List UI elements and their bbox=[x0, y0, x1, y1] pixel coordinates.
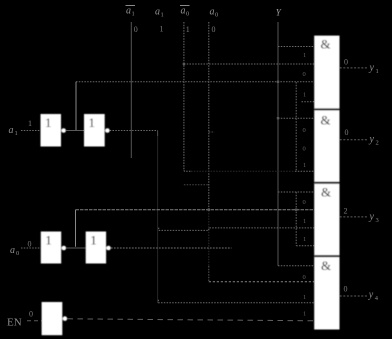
svg-text:0: 0 bbox=[215, 12, 218, 19]
inverter U2 box bbox=[84, 114, 105, 147]
svg-text:0: 0 bbox=[303, 127, 306, 134]
wire inverter1 to inverter2 bbox=[66, 130, 84, 132]
wire branch vertical lower bbox=[295, 192, 297, 246]
svg-text:EN: EN bbox=[7, 317, 22, 329]
AND gate column box bbox=[314, 36, 339, 330]
wire a1 ghost vertical bbox=[157, 131, 159, 303]
AND divider 3 bbox=[314, 255, 339, 257]
wire AND3 input 1 from V5 bbox=[278, 191, 314, 193]
svg-text:3: 3 bbox=[376, 217, 379, 224]
svg-text:1: 1 bbox=[89, 115, 96, 130]
wire AND3 input 4 bbox=[296, 245, 314, 247]
wire EN input bbox=[27, 320, 42, 322]
junction V4 a0 line bbox=[208, 209, 210, 211]
label y1 bbox=[369, 63, 379, 76]
wire AND3 input 2 a0 line bbox=[76, 209, 315, 211]
svg-text:1: 1 bbox=[28, 119, 32, 128]
wire V3 vertical a0bar bus bbox=[183, 22, 185, 170]
label a1 input bbox=[9, 125, 18, 137]
wire tap vertical pair2 bbox=[75, 210, 77, 247]
svg-text:0: 0 bbox=[212, 25, 216, 34]
wire AND1 input 4 branch bbox=[302, 101, 315, 103]
junction V5 and2in1 bbox=[277, 117, 279, 119]
junction V5 and1in3 bbox=[277, 81, 279, 83]
svg-text:1: 1 bbox=[303, 236, 306, 243]
svg-text:1: 1 bbox=[303, 92, 306, 99]
svg-text:0: 0 bbox=[16, 250, 19, 257]
inverter U4 box bbox=[86, 232, 106, 264]
svg-text:0: 0 bbox=[303, 199, 306, 206]
wire AND4 input 3 from a1 net bbox=[158, 300, 314, 303]
inverter U4 bubble bbox=[106, 246, 111, 251]
wire AND2 input 4 from V3 corner bbox=[184, 169, 191, 172]
svg-text:a: a bbox=[181, 6, 186, 17]
svg-text:y: y bbox=[369, 134, 375, 145]
svg-text:&: & bbox=[321, 113, 331, 128]
svg-text:y: y bbox=[369, 63, 375, 74]
label y4 bbox=[368, 290, 379, 303]
pin digits AND3 bbox=[303, 199, 307, 243]
svg-text:0: 0 bbox=[186, 11, 189, 18]
wire AND2 input 1 from V5 bbox=[278, 117, 314, 119]
svg-text:y: y bbox=[368, 290, 374, 301]
svg-text:0: 0 bbox=[28, 240, 32, 249]
AND divider 1 bbox=[314, 108, 339, 110]
wire EN line to AND4 input 4 bbox=[68, 319, 315, 321]
AND divider 2 bbox=[314, 182, 339, 184]
overbar x1bar bbox=[126, 5, 136, 7]
wire V1 vertical x1bar bus bbox=[130, 22, 132, 158]
wire AND4 input 1 from V5 corner bbox=[278, 265, 314, 267]
wire AND4 input 2 from V4 corner bbox=[209, 281, 314, 283]
svg-text:1: 1 bbox=[303, 218, 306, 225]
wire tap vertical pair1 bbox=[75, 82, 77, 131]
svg-text:a: a bbox=[155, 7, 160, 18]
inverter U3 box bbox=[41, 232, 61, 264]
svg-text:1: 1 bbox=[186, 25, 190, 34]
svg-text:1: 1 bbox=[376, 68, 379, 75]
svg-text:y: y bbox=[369, 212, 375, 223]
svg-text:1: 1 bbox=[132, 11, 135, 18]
svg-text:&: & bbox=[321, 258, 331, 273]
node a0bar top label bbox=[181, 6, 190, 18]
svg-text:a: a bbox=[9, 125, 14, 136]
svg-text:1: 1 bbox=[303, 52, 306, 59]
inverter U5 bubble bbox=[63, 316, 68, 321]
svg-text:1: 1 bbox=[45, 115, 52, 130]
wire V4 stub 132 bbox=[209, 131, 215, 133]
svg-text:0: 0 bbox=[344, 58, 348, 67]
inverter U3 bubble bbox=[62, 246, 67, 251]
wire V3 V4 bridge bbox=[184, 184, 209, 186]
wire inverter2 output bbox=[110, 130, 158, 132]
label y2 bbox=[369, 134, 379, 147]
svg-text:1: 1 bbox=[15, 130, 18, 137]
svg-text:2: 2 bbox=[376, 140, 379, 147]
output wire y3 bbox=[340, 216, 367, 218]
node x1bar top label bbox=[126, 6, 135, 18]
output wire y4 bbox=[340, 295, 367, 297]
inverter U5 box EN buffer bbox=[42, 302, 63, 335]
svg-text:1: 1 bbox=[303, 162, 306, 169]
svg-text:1: 1 bbox=[90, 233, 97, 248]
svg-text:1: 1 bbox=[303, 311, 306, 318]
inverter U1 box bbox=[41, 114, 62, 147]
label y3 bbox=[369, 212, 379, 225]
wire a1 stub at inverter output bbox=[157, 131, 159, 137]
svg-text:0: 0 bbox=[345, 128, 349, 137]
wire branch vertical upper bbox=[295, 82, 297, 171]
svg-text:a: a bbox=[210, 7, 215, 18]
wire AND1 input 2 from V3 bbox=[184, 63, 314, 65]
svg-text:0: 0 bbox=[303, 71, 306, 78]
node a1 top label bbox=[155, 7, 164, 19]
wire input a0 bbox=[21, 247, 41, 249]
svg-text:&: & bbox=[321, 185, 331, 200]
pin digits AND4 bbox=[303, 274, 307, 318]
wire AND1 input 3 from inverter pair 1 tap bbox=[76, 81, 314, 83]
pin digits AND1 bbox=[303, 52, 307, 99]
wire AND2 input 4 right bbox=[295, 170, 314, 172]
junction branch a0 line bbox=[295, 209, 297, 211]
output wire y2 bbox=[340, 139, 368, 141]
wire V4 vertical a0 bus bbox=[208, 22, 210, 210]
wire inverter3 to inverter4 bbox=[66, 247, 85, 249]
svg-text:1: 1 bbox=[303, 294, 306, 301]
junction V3 and1in2 bbox=[183, 63, 185, 65]
svg-text:0: 0 bbox=[29, 310, 33, 319]
svg-text:2: 2 bbox=[344, 207, 348, 216]
inverter U1 bubble bbox=[61, 128, 66, 133]
svg-text:0: 0 bbox=[344, 285, 348, 294]
output wire y1 bbox=[340, 67, 368, 69]
svg-text:0: 0 bbox=[303, 146, 306, 153]
wire V4 lower ghost bbox=[208, 210, 210, 266]
svg-text:1: 1 bbox=[160, 25, 164, 34]
wire AND1 input 1 from V5 bbox=[278, 46, 314, 48]
svg-text:0: 0 bbox=[134, 25, 138, 34]
wire inverter4 output bbox=[111, 247, 232, 249]
svg-text:a: a bbox=[10, 245, 15, 256]
wire AND2 input 4 ghost middle bbox=[191, 170, 295, 172]
wire AND3 input 3 from a1 net bbox=[159, 228, 315, 231]
wire input a1 bbox=[21, 130, 41, 132]
svg-text:0: 0 bbox=[303, 274, 306, 281]
overbar a0bar bbox=[180, 5, 190, 7]
svg-text:1: 1 bbox=[45, 233, 52, 248]
pin digits AND2 bbox=[303, 127, 307, 169]
svg-text:&: & bbox=[321, 37, 331, 52]
svg-text:1: 1 bbox=[161, 12, 164, 19]
inverter U2 bubble bbox=[105, 128, 110, 133]
node a0 top label bbox=[210, 7, 219, 19]
label a0 input bbox=[10, 245, 19, 257]
svg-text:a: a bbox=[126, 6, 131, 17]
wire V4 lower visible bbox=[208, 266, 210, 282]
wire V5 vertical strobe bus bbox=[277, 22, 279, 266]
